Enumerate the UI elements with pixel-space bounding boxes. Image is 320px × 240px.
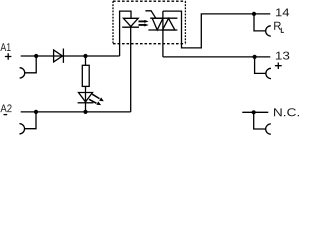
triac top rail MT2: [150, 17, 177, 19]
wire opto LED cathode: [130, 27, 132, 112]
node junction A2/branch: [83, 110, 87, 114]
plus sign under A1: [5, 53, 11, 59]
wire MT2 bridge to terminal 14: [163, 11, 270, 48]
label 14: [274, 9, 289, 30]
label A1: [0, 43, 10, 51]
node N.C.: [252, 110, 256, 114]
wire A2: [21, 111, 131, 113]
terminal clamp 14: [254, 14, 266, 31]
terminal clamp A1: [25, 56, 37, 73]
terminal clamp N.C.: [254, 112, 266, 129]
plus sign under 13: [275, 63, 282, 70]
wire MT1 to terminal 13: [163, 56, 270, 58]
label 13: [276, 52, 289, 60]
opto LED: [123, 18, 138, 26]
diode D1: [54, 50, 63, 62]
opto light arrows: [139, 20, 145, 22]
node 13: [253, 55, 257, 59]
triac bottom rail MT1: [148, 29, 177, 31]
label L subscript: [281, 28, 284, 33]
triac gate: [145, 11, 155, 18]
LED light arrows: [92, 94, 99, 98]
resistor R1: [82, 65, 89, 86]
label A2: [0, 104, 11, 112]
wire A1: [21, 55, 120, 57]
triac triangle down: [152, 18, 163, 30]
triac triangle up: [163, 18, 175, 30]
node junction A1/resistor branch: [83, 54, 87, 58]
wire triac center vertical: [162, 11, 164, 57]
wire N.C. stub: [242, 111, 268, 113]
LED indicator: [79, 93, 93, 102]
wire LED anode loop: [120, 11, 131, 56]
node A2: [34, 110, 38, 114]
wire branch down: [85, 56, 87, 112]
node 14: [252, 12, 256, 16]
terminal clamp A2: [24, 112, 36, 129]
label N.C.: [274, 108, 299, 116]
terminal clamp 13: [255, 57, 266, 74]
minus sign under A2: [4, 114, 8, 116]
optocoupler dashed box: [113, 1, 185, 44]
node A1: [34, 54, 38, 58]
